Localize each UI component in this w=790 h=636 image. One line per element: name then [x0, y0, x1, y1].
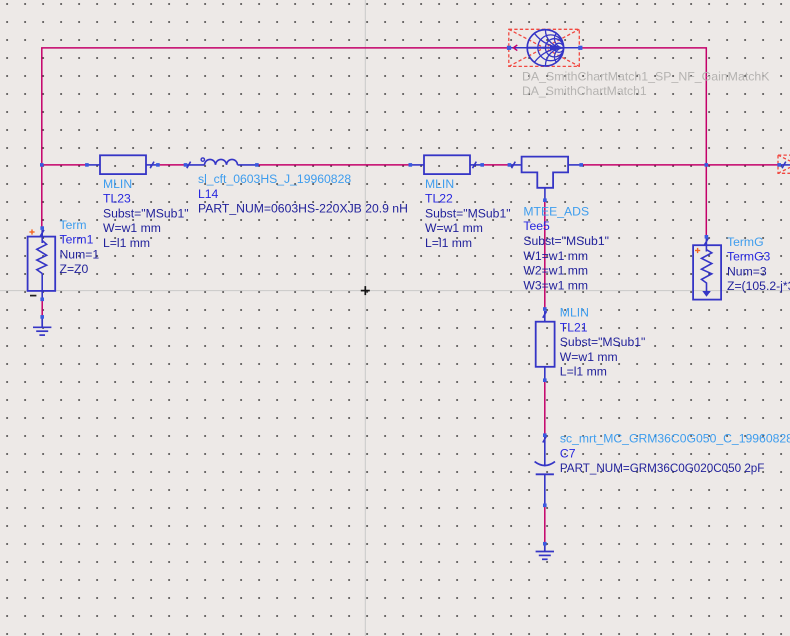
GND2 pin square	[543, 542, 547, 546]
svg-text:DA_SmithChartMatch1_SP_NF_Gain: DA_SmithChartMatch1_SP_NF_GainMatchK	[522, 69, 770, 83]
wire TL21 pin2 to C7 pin1	[544, 380, 546, 435]
svg-text:Subst="MSub1": Subst="MSub1"	[560, 335, 646, 349]
svg-text:PART_NUM=GRM36C0G020C050 2pF: PART_NUM=GRM36C0G020C050 2pF	[560, 461, 765, 475]
MLIN TL23 symbol	[87, 155, 158, 174]
svg-text:W3=w1 mm: W3=w1 mm	[523, 278, 588, 292]
Tee5 pin squares	[508, 163, 512, 167]
edge port pin lead	[779, 164, 790, 166]
svg-text:Subst="MSub1": Subst="MSub1"	[103, 206, 189, 220]
svg-text:TermG3: TermG3	[727, 250, 771, 264]
smith chart icon U1	[509, 30, 580, 66]
pin1 arrow on wire	[513, 45, 517, 51]
svg-text:sc_mrt_MC_GRM36C0G050_C_199608: sc_mrt_MC_GRM36C0G050_C_19960828	[560, 432, 790, 446]
MLIN TL21 symbol (vertical)	[536, 311, 555, 380]
origin cross marker	[361, 286, 370, 295]
MLIN TL22 symbol	[410, 155, 482, 174]
svg-text:Subst="MSub1": Subst="MSub1"	[425, 206, 511, 220]
svg-text:W=w1 mm: W=w1 mm	[103, 221, 161, 235]
svg-text:MTEE_ADS: MTEE_ADS	[523, 204, 589, 218]
svg-text:C7: C7	[560, 446, 576, 460]
svg-text:W1=w1 mm: W1=w1 mm	[523, 249, 588, 263]
svg-text:Z=(105.2-j*35: Z=(105.2-j*35	[727, 279, 790, 293]
svg-text:TL23: TL23	[103, 192, 131, 206]
Term1 plus mark	[29, 229, 34, 234]
wire Tee5 pin3 down to TL21 pin1	[544, 200, 546, 309]
TL22 pin squares	[409, 163, 413, 167]
svg-text:TermG: TermG	[727, 235, 764, 249]
edge port pin square	[777, 163, 781, 167]
svg-text:L=l1 mm: L=l1 mm	[425, 236, 472, 250]
edge port dashed box (cut off)	[778, 155, 790, 173]
svg-text:MLIN: MLIN	[103, 177, 132, 191]
wire Term1 to ground pin	[41, 299, 43, 317]
svg-text:Term: Term	[60, 218, 87, 232]
TermG3 pin square	[705, 235, 709, 239]
node B junction square	[705, 163, 709, 167]
GND1 pin square	[40, 315, 44, 319]
wire Tee5 pin2 to node B	[581, 164, 706, 166]
svg-text:PART_NUM=0603HS-220XJB 20.9 nH: PART_NUM=0603HS-220XJB 20.9 nH	[198, 202, 408, 216]
wire top-left corner from node A to SmithChart pin1	[42, 48, 509, 228]
ground GND2 under C7	[536, 544, 554, 560]
svg-text:Subst="MSub1": Subst="MSub1"	[523, 234, 609, 248]
svg-text:TL21: TL21	[560, 320, 588, 334]
Term1 minus mark	[30, 295, 36, 297]
svg-text:TL22: TL22	[425, 192, 453, 206]
svg-text:W=w1 mm: W=w1 mm	[425, 221, 483, 235]
origin guide vertical line	[364, 0, 366, 636]
TermG3 ground arrow	[702, 291, 711, 297]
svg-text:L14: L14	[198, 187, 219, 201]
capacitor C7 symbol	[535, 436, 555, 505]
TermG3 symbol	[693, 238, 721, 299]
wire L14 pin2 to TL22 pin1	[257, 164, 410, 166]
TL21 pin squares	[543, 307, 547, 311]
smith chart pin squares	[507, 46, 511, 50]
node A junction square	[40, 163, 44, 167]
svg-text:W=w1 mm: W=w1 mm	[560, 350, 618, 364]
op DA_SmithChartMatch1 dashed selection box	[509, 29, 580, 66]
TL23 pin squares	[85, 163, 89, 167]
L14 pin squares	[184, 163, 188, 167]
wire node B to edge port	[706, 164, 779, 166]
svg-text:Num=1: Num=1	[60, 247, 100, 261]
svg-text:MLIN: MLIN	[560, 306, 589, 320]
wire SmithChart pin2 to right corner down to TermG3	[580, 48, 706, 237]
svg-text:sl_cft_0603HS_J_19960828: sl_cft_0603HS_J_19960828	[198, 172, 351, 186]
wire C7 pin2 to ground pin	[544, 505, 546, 543]
svg-text:Term1: Term1	[60, 233, 94, 247]
svg-text:Z=Z0: Z=Z0	[60, 262, 89, 276]
C7 pin squares	[543, 433, 547, 437]
Term1 symbol	[28, 230, 56, 299]
inductor L14 symbol	[186, 158, 257, 168]
wire TL23 pin2 to L14 pin1	[158, 164, 186, 166]
svg-text:L=l1 mm: L=l1 mm	[560, 365, 607, 379]
wire node A to TL23 pin1	[42, 164, 87, 166]
wire TL22 pin2 to Tee5 pin1	[482, 164, 509, 166]
svg-text:Tee5: Tee5	[523, 219, 550, 233]
origin guide horizontal line	[0, 290, 790, 292]
svg-text:W2=w1 mm: W2=w1 mm	[523, 264, 588, 278]
MTEE_ADS Tee5 symbol	[509, 157, 581, 201]
smith chart center arrow	[550, 45, 561, 51]
svg-text:Num=3: Num=3	[727, 264, 767, 278]
TermG3 plus mark	[695, 248, 700, 253]
svg-text:L=l1 mm: L=l1 mm	[103, 236, 150, 250]
svg-text:MLIN: MLIN	[425, 177, 454, 191]
svg-text:DA_SmithChartMatch1: DA_SmithChartMatch1	[522, 84, 647, 98]
ground GND1 under Term1	[33, 317, 51, 335]
Term1 pin squares	[40, 226, 44, 230]
